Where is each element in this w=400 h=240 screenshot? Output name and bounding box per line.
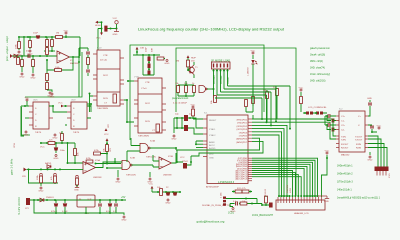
svg-text:DIV5: DIV5 [103, 98, 109, 100]
supply VCC backlight [325, 150, 330, 154]
wire [74, 143, 76, 163]
wire [17, 56, 19, 58]
resistor R1C [214, 96, 217, 103]
resistor R2c hang [29, 41, 32, 48]
svg-text:J40m1S1dh 1: J40m1S1dh 1 [337, 189, 352, 192]
supply VCC mid [151, 186, 154, 189]
svg-text:(T1)PD5: (T1)PD5 [239, 136, 248, 138]
supply VCC U5/2 [61, 105, 64, 108]
ground C10 [53, 155, 58, 160]
ground gates2 [147, 178, 152, 183]
svg-text:HEADER_LCD: HEADER_LCD [294, 212, 309, 215]
wire IC3A out [150, 147, 176, 149]
svg-text:1M: 1M [176, 61, 179, 63]
svg-text:JHDm4S1dh 1: JHDm4S1dh 1 [337, 165, 353, 168]
wire [252, 103, 254, 112]
wire PD3 down to header [252, 129, 284, 196]
wire [303, 112, 327, 114]
wire top rail [30, 199, 126, 201]
wire gate rail top [27, 168, 84, 170]
wire cap drops 2 [100, 200, 116, 213]
svg-text:J-LED5V: J-LED5V [248, 67, 250, 76]
wire PB2 to header [252, 162, 313, 197]
wire [157, 58, 165, 60]
junction dots input rows [23, 36, 25, 38]
supply VCC input [64, 30, 69, 34]
pin stubs U5/1 [29, 106, 53, 125]
pin stubs U1 left [93, 54, 97, 100]
svg-text:(INT1)PD3: (INT1)PD3 [237, 129, 248, 131]
wire feedback to row1 [66, 37, 80, 56]
svg-text:gate 1-1MHz: gate 1-1MHz [11, 158, 14, 175]
wire [19, 36, 66, 38]
resistor R6 [21, 60, 24, 67]
svg-text:T1IN: T1IN [341, 137, 346, 139]
resistor R12 [87, 58, 90, 65]
wire [246, 88, 277, 122]
diode D4 [47, 165, 51, 169]
svg-text:GND: GND [367, 98, 372, 100]
svg-text:T2OUT: T2OUT [355, 140, 363, 142]
capacitor C16 [328, 114, 330, 118]
nand IC3B [122, 160, 132, 169]
resistor R5 [51, 40, 54, 47]
resistor R26 [160, 189, 163, 196]
svg-text:GND: GND [209, 158, 214, 160]
wire [177, 150, 203, 165]
svg-text:4.7k | 0.048uF: 4.7k | 0.048uF [173, 103, 188, 105]
wire to gnd [47, 90, 52, 92]
IC IC1 AT90S4433 [207, 115, 248, 184]
svg-text:U5/1: U5/1 [33, 100, 38, 102]
ground cluster [164, 60, 169, 65]
diode D2b [17, 58, 20, 65]
resistor R19 [276, 89, 279, 96]
supply VCC ic3b pull [106, 138, 109, 141]
pin stubs U2 right [162, 88, 166, 130]
supply VCC down [100, 33, 103, 36]
junction dots mode joins [261, 118, 263, 120]
wire cluster loop [143, 55, 154, 75]
svg-text:guido@linuxfocus.org: guido@linuxfocus.org [197, 219, 225, 223]
capacitor C22 [114, 204, 118, 206]
IC U5/2 74F74 [71, 102, 87, 129]
svg-text:(T0)PD4: (T0)PD4 [239, 132, 248, 134]
supply VCC mode [251, 50, 256, 54]
resistor R22 [61, 134, 64, 141]
wire [21, 56, 23, 60]
wire IC3A inputs [127, 138, 140, 162]
wire [118, 165, 153, 177]
svg-text:100n: 100n [60, 150, 66, 152]
svg-text:(CT=0): (CT=0) [100, 60, 107, 62]
svg-text:DIV2: DIV2 [103, 75, 109, 77]
ground GND circle mid [47, 92, 52, 97]
svg-text:DIGITAL_IN_PUSH_BUTTON: DIGITAL_IN_PUSH_BUTTON [202, 204, 232, 207]
svg-text:(AIN1)PD7: (AIN1)PD7 [236, 141, 247, 144]
svg-text:VCC: VCC [209, 154, 214, 156]
wire [232, 191, 252, 193]
ground header [318, 196, 330, 199]
svg-text:10B: 10B [140, 48, 144, 50]
svg-text:VCC: VCC [58, 103, 63, 105]
resistor R11a [235, 190, 242, 193]
resistor R25 [40, 176, 43, 183]
capacitor C16b [332, 119, 334, 123]
resistor R21b [252, 97, 255, 104]
op-amp IC4 MAX903 [57, 51, 70, 63]
wire [133, 50, 160, 56]
svg-text:1 16b: 1 16b [221, 192, 223, 198]
svg-text:gate/tr-prescal.con: gate/tr-prescal.con [310, 47, 330, 50]
svg-text:VCC: VCC [149, 184, 154, 186]
svg-text:BAT41: BAT41 [45, 162, 52, 165]
svg-text:J-P10(S2/4)3.3: J-P10(S2/4)3.3 [218, 181, 235, 184]
wire PD1 to max232 [252, 122, 336, 139]
frame mcu section [176, 48, 296, 196]
LED D3 [251, 60, 254, 64]
svg-text:1M: 1M [56, 33, 59, 35]
wire [32, 56, 34, 60]
supply VCC mid2 [105, 128, 108, 131]
wire PC0 to header [252, 171, 293, 198]
wire [152, 189, 180, 192]
capacitor C5 polarized [104, 26, 107, 32]
connector JP4 [223, 197, 226, 199]
wire comparator feed vertical [68, 143, 84, 163]
resistor R3 [56, 36, 63, 39]
wire [25, 117, 29, 119]
junction dots header drops [278, 195, 280, 197]
wire to U1 [98, 29, 102, 51]
wire PD0 to max232 [252, 119, 336, 136]
resistor R27 [173, 192, 177, 195]
svg-text:RESET: RESET [209, 120, 217, 122]
resistor chain x77 [76, 175, 79, 178]
wire [65, 35, 67, 37]
wire regulator gnd [85, 207, 87, 213]
wire PC1 to header [252, 173, 295, 197]
node circle R26 top [54, 173, 57, 176]
wire led column down [252, 88, 254, 106]
capacitor C2 polarized [36, 35, 40, 38]
svg-text:R2OUT: R2OUT [341, 148, 349, 150]
svg-text:GND: GND [74, 190, 79, 192]
wire header drops [279, 196, 290, 197]
wire mode switch columns to bus [215, 86, 290, 98]
ground U5/2 [52, 134, 57, 139]
wire xtal row1 [174, 118, 203, 128]
ground top cluster [114, 29, 119, 32]
crystal Q1 [184, 115, 188, 121]
resistor R33 [94, 152, 101, 155]
svg-text:V-: V- [358, 125, 360, 127]
wire IC3B inputs [107, 158, 122, 168]
wire PB4 to header [252, 166, 307, 197]
svg-text:K1 102: K1 102 [265, 188, 267, 196]
resistor R23h [48, 142, 55, 145]
wire [101, 22, 103, 32]
pin stubs MCU left [203, 119, 207, 157]
svg-text:VCC: VCC [40, 147, 45, 149]
IC U1 74HC390 [97, 50, 120, 106]
wire bottom rail [34, 200, 122, 213]
frame flipflop section [22, 107, 31, 135]
pin stubs U1 right [120, 58, 124, 104]
resistor R9 feedback [55, 69, 62, 72]
wire mode column drops [262, 86, 290, 129]
wire [27, 101, 29, 106]
svg-text:AT90S4433P: AT90S4433P [206, 186, 219, 189]
connector X2 [26, 198, 30, 205]
svg-text:VCC: VCC [96, 38, 101, 40]
svg-text:(ADC4)PC4: (ADC4)PC4 [235, 178, 247, 181]
wire U5/2 out [87, 94, 93, 113]
resistor R11 [46, 83, 49, 90]
resistor R13b filled [148, 64, 151, 69]
svg-text:T1OUT: T1OUT [355, 137, 363, 139]
svg-text:HI2P: HI2P [191, 58, 196, 60]
svg-text:74HC00N: 74HC00N [126, 175, 136, 177]
op-amp IC5A LM393 [83, 162, 96, 174]
svg-text:X1-5: X1-5 [389, 173, 391, 178]
svg-text:GND: GND [324, 201, 329, 203]
svg-text:74HC390N: 74HC390N [138, 136, 149, 138]
resistor R13d [157, 57, 164, 60]
wire [300, 92, 302, 112]
wire [48, 168, 50, 171]
wire AIN0 from comparator [176, 138, 260, 150]
regulator IC6 7805 [77, 195, 95, 207]
svg-text:OUT: OUT [87, 199, 92, 201]
supply VCC prescaler input [187, 55, 190, 58]
connector JP6 input [24, 168, 27, 172]
svg-text:DIV2: DIV2 [145, 103, 151, 105]
resistor R26b [54, 176, 57, 183]
wire xtal row2 [174, 128, 203, 134]
wire [257, 196, 269, 205]
svg-text:prot.+input - ampl: prot.+input - ampl [5, 36, 9, 61]
capacitor C4 [86, 70, 90, 72]
node circle R25 top [40, 173, 43, 176]
svg-text:R1OUT: R1OUT [341, 144, 349, 146]
wire IC5A out [96, 158, 116, 168]
supply VCC max [377, 125, 382, 129]
wire IC5B inputs [153, 155, 159, 167]
capacitor C20 [98, 204, 102, 206]
IC IC2 MAX232 [339, 111, 365, 152]
wire U5 junction [87, 104, 91, 112]
svg-text:AVCC: AVCC [209, 144, 215, 147]
wire [95, 141, 121, 164]
svg-text:IC3B: IC3B [130, 158, 135, 160]
wire cap drops [56, 200, 65, 213]
wire [65, 118, 91, 125]
svg-text:JCO1_BACKLIGHT: JCO1_BACKLIGHT [252, 214, 274, 217]
resistor R13c filled [148, 71, 151, 76]
svg-text:10uF: 10uF [33, 33, 39, 35]
transistor Q2 [190, 65, 194, 75]
svg-text:VCC: VCC [180, 157, 185, 159]
pin stubs MAX232 right [365, 116, 368, 148]
resistor R2b hang [18, 42, 21, 49]
wire mode bus drops [214, 69, 228, 98]
svg-text:JHD: ctrl(2/16): JHD: ctrl(2/16) [310, 80, 326, 83]
svg-text:R1IN: R1IN [356, 144, 361, 146]
svg-text:9-12V AC/DC: 9-12V AC/DC [18, 197, 21, 215]
wire [44, 50, 55, 52]
wire U5 interconnect [49, 106, 67, 112]
capacitor C9 [184, 125, 188, 131]
jumper JP2 [306, 112, 309, 115]
wire R22 column [61, 131, 63, 143]
svg-text:JP11: JP11 [14, 142, 16, 148]
wire [246, 112, 253, 119]
wire divider chain [46, 60, 48, 90]
wire [21, 66, 23, 72]
svg-text:AREF: AREF [209, 141, 215, 144]
ground mid [165, 199, 170, 204]
wire jp4 rows [226, 199, 257, 204]
svg-text:IC5A: IC5A [95, 159, 100, 162]
wire max232 outputs to X1 [368, 136, 387, 167]
svg-text:10uF: 10uF [146, 46, 148, 52]
svg-text:LM393N: LM393N [163, 175, 172, 177]
IC U5/1 74F74 [33, 102, 49, 129]
svg-text:XTAL2: XTAL2 [209, 134, 216, 137]
wire [12, 55, 57, 57]
ground crystal [171, 135, 176, 140]
svg-text:MODE0: MODE0 [213, 75, 216, 84]
svg-text:VCC: VCC [104, 134, 109, 136]
svg-text:HIGH: HIGH [95, 25, 101, 27]
jumper JP3 [316, 112, 319, 115]
svg-text:prescaler/count: prescaler/count [172, 97, 189, 100]
svg-text:LCD_CONN/5V-BL: LCD_CONN/5V-BL [308, 107, 327, 109]
resistor R35 [265, 196, 268, 203]
wire backlight [322, 155, 328, 197]
capacitor C24r [370, 126, 374, 128]
svg-text:(AIN0)PD6: (AIN0)PD6 [236, 138, 247, 141]
supply VCC reset [191, 104, 196, 108]
wire [29, 37, 31, 49]
svg-text:JsmarNHSLtj %01920) ad10 co.nt: JsmarNHSLtj %01920) ad10 co.ntr(11) 1 [337, 197, 381, 200]
ground gate rail [38, 187, 43, 192]
supply VCC q3 [299, 87, 304, 91]
svg-text:C1+: C1+ [341, 116, 346, 118]
wire PC3 to header [252, 177, 301, 197]
capacitor C27 [183, 163, 187, 169]
capacitor C21 [108, 203, 112, 206]
wire IC5B out [172, 153, 177, 163]
nand IC3D [199, 86, 206, 93]
resistor R18 [266, 92, 269, 99]
svg-text:JHDm4S1dh 2: JHDm4S1dh 2 [337, 173, 353, 176]
wire [32, 66, 34, 73]
wire [65, 199, 126, 201]
svg-text:MAX232: MAX232 [341, 154, 350, 157]
resistor R7 [32, 60, 35, 67]
svg-text:MAX903: MAX903 [70, 62, 79, 65]
ground R2c [27, 50, 32, 55]
svg-text:74F74: 74F74 [73, 132, 80, 134]
svg-text:Jbus4: ctrl(16): Jbus4: ctrl(16) [310, 54, 325, 57]
wire into U2 [128, 80, 134, 82]
resistor R23 [74, 149, 77, 156]
wire gate rail bottom [29, 169, 59, 183]
svg-text:+5V: +5V [121, 196, 126, 199]
resistor R24 470k [86, 160, 93, 163]
ground input R6 [19, 73, 24, 78]
svg-text:IC3A: IC3A [150, 140, 155, 143]
svg-text:DIV5: DIV5 [145, 121, 151, 123]
svg-text:74HC390N: 74HC390N [97, 108, 108, 110]
svg-text:(TXD)PD1: (TXD)PD1 [237, 123, 248, 125]
capacitor C17 [328, 123, 330, 127]
svg-text:74F74: 74F74 [35, 132, 42, 134]
svg-text:MODE2: MODE2 [220, 75, 223, 84]
ground power [121, 216, 126, 221]
svg-text:JHD: char(74): JHD: char(74) [310, 67, 325, 70]
capacitor C19 [63, 203, 67, 206]
svg-text:GND: GND [113, 34, 118, 36]
ground input R7 [30, 74, 35, 79]
wire max caps [325, 116, 336, 130]
resistor R10 [46, 74, 49, 81]
capacitor C18 [54, 203, 58, 206]
wire IC3D out [207, 88, 214, 90]
wire output column [79, 48, 88, 97]
diode D5 1N4001 [40, 198, 44, 202]
wire [252, 55, 254, 59]
ground gates [115, 178, 120, 183]
svg-text:74HC00N: 74HC00N [146, 157, 156, 159]
resistor R15 [177, 86, 180, 93]
resistor R4 [46, 40, 49, 47]
svg-text:VCC: VCC [113, 18, 118, 20]
supply arrow HIGH [95, 21, 98, 24]
svg-text:50R: 50R [152, 48, 154, 52]
svg-text:1N4001: 1N4001 [46, 197, 54, 199]
capacitor C28 [236, 202, 238, 206]
wire PD5 down to header [252, 135, 279, 196]
svg-text:CTR: CTR [103, 55, 108, 57]
wire [108, 28, 117, 30]
svg-text:CTR: CTR [145, 82, 150, 84]
wire PC2 to header [252, 175, 298, 197]
wire header bottom junction row [278, 195, 318, 197]
svg-text:JCD1: JCD1 [228, 212, 235, 215]
wire [23, 37, 25, 56]
capacitor C23 top [368, 103, 372, 105]
svg-text:(INT0)PD2: (INT0)PD2 [237, 126, 248, 128]
resistor R14 [187, 60, 190, 67]
svg-text:(RXD)PD0: (RXD)PD0 [237, 120, 248, 122]
svg-text:R2IN: R2IN [356, 148, 361, 150]
wire [368, 100, 370, 116]
wire PB5 to header [252, 168, 304, 197]
capacitor C10 [54, 147, 58, 150]
ground max [367, 156, 372, 161]
diode D1 [14, 54, 18, 58]
wire [18, 37, 20, 50]
frame input-amp section [25, 52, 82, 97]
wire PB3 to header [252, 164, 310, 197]
transistor Q4 [269, 203, 273, 208]
wire [55, 143, 57, 153]
wire PB1 to header [252, 160, 315, 197]
wire loop left [21, 106, 24, 136]
